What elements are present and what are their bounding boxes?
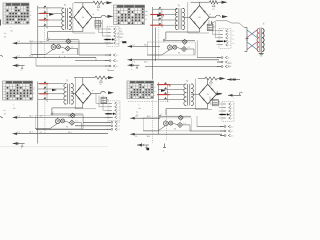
svg-text:a 1: a 1: [228, 34, 230, 36]
bus line L2/SL2 (block A): [13, 41, 113, 44]
wire: D pin feeds: [209, 97, 211, 105]
relay contact matrix K2 (block B): [114, 5, 145, 25]
svg-text:b 2: b 2: [118, 129, 120, 131]
svg-text:a 1: a 1: [117, 107, 119, 109]
wire: B sheet arrow y79.5: [227, 79, 240, 81]
wire: vertical feed A x37.8: [37, 29, 39, 58]
connector X1 pins 1-5 (block A): [105, 27, 120, 47]
connector X3 pins 1-5 (block C): [106, 101, 121, 121]
svg-text:Kz: Kz: [139, 108, 141, 110]
resistor R2 with arrow (block B): [191, 1, 228, 11]
svg-text:c1: c1: [146, 19, 148, 21]
svg-text:a 1: a 1: [117, 117, 119, 119]
relay contact matrix K1 (block A): [3, 3, 29, 24]
wire: C dashed vertical: [44, 84, 46, 134]
module box left edge (block D): [195, 79, 197, 110]
wire: bridge D top corner up: [207, 79, 209, 85]
wire: bridge D output hop arrow: [216, 93, 222, 94]
svg-text:b: b: [64, 56, 65, 58]
svg-text:b: b: [155, 91, 156, 93]
svg-text:b: b: [59, 56, 60, 58]
svg-text:uv: uv: [117, 44, 119, 46]
wire: bridge B top corner up: [199, 2, 201, 5]
svg-text:a 1: a 1: [117, 114, 119, 116]
wire: left edge tick A bus2: [0, 55, 3, 57]
wire: C lower pin line 2: [75, 125, 108, 127]
faint bottom line (block C): [0, 146, 108, 148]
bus line L2/SL2 (block D): [130, 116, 160, 119]
wire: A pin feed horizontals: [95, 28, 108, 30]
svg-text:b: b: [30, 15, 31, 17]
svg-text:a 1: a 1: [228, 31, 230, 33]
wire: A bottom corner to lamp feed: [48, 31, 83, 33]
signal lamps L5/L6 (block C): [35, 112, 83, 129]
module box bottom edge (block B): [188, 32, 209, 34]
svg-text:a 1: a 1: [231, 114, 233, 116]
signal lamps L3/L4 (block B): [147, 38, 195, 55]
connector X2 pins 1-5 (block B): [217, 28, 232, 48]
wire: left edge tick A: [0, 20, 1, 26]
svg-text:Tr: Tr: [186, 80, 188, 83]
svg-text:a 1: a 1: [117, 110, 119, 112]
svg-text:u: u: [131, 69, 132, 71]
wire: D dashed vertical 2: [165, 110, 167, 140]
module box bottom edge (block D): [196, 108, 213, 110]
wire: D lower pin line 1: [196, 116, 198, 127]
signal switch S2 (block B): [150, 7, 177, 28]
connector X3 pins 6-8 (block C): [107, 121, 120, 131]
bus line L1/SL1 (block D): [130, 133, 222, 138]
svg-text:sh: sh: [33, 87, 35, 89]
svg-text:u: u: [146, 11, 147, 13]
resistor R4 with arrow (block D): [198, 77, 226, 87]
svg-text:b1: b1: [146, 15, 148, 17]
battery stub (block A): [13, 64, 25, 69]
svg-text:Tr: Tr: [178, 4, 180, 7]
svg-text:a 1: a 1: [231, 107, 233, 109]
svg-text:b 2: b 2: [116, 55, 118, 57]
bracket under A lower pins: [108, 70, 114, 72]
transformer T4 (block D): [184, 80, 194, 106]
aux transformer ground: [259, 53, 264, 57]
transformer T3 (block C): [64, 80, 74, 105]
svg-text:a 1: a 1: [231, 104, 233, 106]
signal lamps L7/L8 (block D): [143, 114, 191, 131]
signal switch S1 (block A): [38, 5, 63, 28]
wire: bridge A output hop arrow: [92, 15, 106, 17]
svg-text:u: u: [21, 148, 22, 150]
battery symbol on aux line: [246, 37, 249, 39]
red wire vertical tick (block D): [169, 85, 171, 87]
bus line L2/SL2 (block B): [128, 44, 161, 47]
svg-text:u: u: [163, 151, 164, 153]
wire: bridge C top corner up: [82, 78, 84, 84]
svg-text:a 1: a 1: [228, 41, 230, 43]
svg-text:Lz: Lz: [136, 112, 138, 114]
wire: dashed vertical A: [44, 8, 46, 58]
wire: A lower pin line 1: [78, 40, 80, 55]
svg-text:Lz: Lz: [4, 110, 6, 112]
svg-text:b 2: b 2: [118, 122, 120, 124]
wire: C lower pin line 3: [36, 128, 108, 130]
module box left edge (block B): [187, 2, 189, 33]
signal switch S3 (block C): [38, 81, 64, 101]
transformer T2 (block B): [175, 4, 185, 29]
resistor R1 with arrow (block A): [74, 1, 113, 11]
aux transformer crossed wires (teal): [247, 30, 257, 50]
bridge rectifier GL3 (block C): [75, 84, 91, 103]
svg-text:a: a: [155, 87, 156, 89]
svg-text:Bl 2: Bl 2: [228, 66, 231, 68]
svg-text:2: 2: [233, 35, 234, 37]
bus line L2/SL2 (block C): [13, 115, 113, 118]
svg-text:u: u: [21, 70, 22, 72]
relay contact matrix K3 (block C): [3, 81, 33, 100]
svg-text:a 1: a 1: [228, 38, 230, 40]
wire: B pin feeds: [208, 20, 210, 31]
wire: D sheet arrow y95: [228, 94, 241, 96]
svg-text:a: a: [30, 11, 31, 13]
wire: bridge C output hop arrow: [91, 91, 105, 93]
wire: left edge tick C: [0, 116, 3, 118]
svg-text:b 2: b 2: [228, 57, 230, 59]
wire: T4 secondary to bridge D: [191, 93, 199, 95]
battery stub (block C): [13, 142, 25, 147]
bus line L1/SL1 (block A): [13, 56, 96, 59]
resistor box W4 (block D): [213, 99, 221, 105]
bus line L1/SL1 (block B): [128, 59, 220, 64]
dark mark bottom center: [147, 148, 150, 150]
wire: route from block B to aux transformer: [212, 21, 245, 28]
wire: D dashed vertical: [152, 100, 154, 143]
bridge rectifier GL2 (block B): [190, 6, 210, 29]
svg-text:4: 4: [233, 43, 234, 45]
svg-text:b 2: b 2: [116, 60, 118, 62]
wire: D lower pin line 2: [190, 130, 221, 132]
connector X2 pins 6-8 (block B): [217, 56, 230, 68]
wire: C vertical feed x37.8: [37, 102, 39, 144]
wire: C pin feeds: [95, 94, 97, 104]
svg-text:b 2: b 2: [116, 66, 118, 68]
module box left edge (block C): [74, 78, 76, 109]
svg-text:4: 4: [121, 41, 122, 43]
ground symbol right of D stub: [164, 144, 166, 148]
svg-text:b 2: b 2: [231, 135, 233, 137]
resistor box W2 (block B): [207, 24, 215, 30]
svg-text:a 1: a 1: [228, 45, 230, 47]
svg-text:Kz: Kz: [13, 108, 15, 110]
wire: C lower pin line 1: [82, 114, 84, 122]
svg-text:v: v: [233, 98, 234, 100]
svg-text:a 1: a 1: [231, 111, 233, 113]
battery stub (block D): [137, 143, 149, 148]
signal lamps L1/L2 (block A): [31, 38, 79, 55]
dark label blob right of X1: [122, 41, 126, 43]
svg-text:b: b: [33, 93, 34, 95]
bus line L1/SL1 (block C): [13, 132, 108, 135]
aux transformer Tb left terminal line: [244, 28, 248, 52]
resistor R3 with arrow (block C): [74, 76, 114, 86]
svg-text:a 1: a 1: [116, 29, 118, 31]
wire: A lower pin line 2: [95, 58, 97, 61]
svg-text:Tr: Tr: [64, 4, 66, 7]
wire: B vertical feed x155.3: [154, 27, 156, 61]
module box bottom edge (block C): [75, 108, 96, 110]
svg-text:b 2: b 2: [118, 126, 120, 128]
svg-text:b 2: b 2: [231, 131, 233, 133]
wire: D vertical feed x158.4: [157, 102, 159, 134]
resistor box W3 (block C): [101, 97, 109, 103]
svg-text:3: 3: [233, 39, 234, 41]
wire: B lower pin line 1: [196, 40, 198, 57]
wire: A lower pin line 3: [36, 65, 106, 67]
aux transformer Tb windings: [257, 28, 264, 53]
svg-text:a 1: a 1: [231, 118, 233, 120]
signal switch S4 (block D): [157, 82, 184, 102]
svg-text:1 Lz 12: 1 Lz 12: [117, 34, 124, 36]
svg-text:a 1: a 1: [116, 39, 118, 41]
wire: T2 secondary to bridge B: [182, 16, 189, 18]
relay contact matrix K4 (block D): [127, 81, 154, 99]
module box bottom edge (block A): [73, 32, 95, 34]
module box left edge (block A): [72, 3, 74, 33]
connector X1 pins 6-8 (block A): [105, 54, 118, 68]
red wire vertical tick (block B): [162, 15, 164, 17]
transformer T1 (block A): [62, 4, 72, 29]
wire: B dashed vertical: [158, 9, 160, 59]
svg-text:Kz: Kz: [11, 31, 13, 33]
wire: B lower pin line 3: [145, 66, 218, 68]
wire: A pin feeds vertical: [94, 17, 96, 29]
resistor box W1 (block A): [95, 21, 103, 27]
svg-text:Tr: Tr: [66, 80, 68, 83]
svg-text:a 1: a 1: [117, 103, 119, 105]
wire: bridge C bottom corner down: [82, 103, 84, 108]
svg-text:2 Fz 1: 2 Fz 1: [117, 37, 123, 39]
wire: T1 secondary to bridge A: [69, 16, 74, 18]
aux transformer crossed wires (purple): [247, 30, 257, 50]
connector X4 pins 1-5 (block D): [220, 102, 235, 122]
connector X4 pins 6-8 (block D): [220, 125, 233, 137]
battery stub (block B): [128, 64, 140, 69]
bridge rectifier GL1 (block A): [74, 6, 92, 28]
wire: B vertical feed x152.7: [152, 27, 154, 79]
wire: bridge A bottom corner down: [82, 28, 84, 31]
bridge rectifier GL4 (block D): [199, 84, 216, 104]
svg-text:1: 1: [233, 31, 234, 33]
svg-text:b 2: b 2: [231, 126, 233, 128]
svg-text:Lz: Lz: [4, 33, 6, 35]
wire: bridge A top corner up: [82, 3, 84, 7]
wire: bridge B bottom corner down: [199, 29, 201, 32]
wire: bridge D bottom corner down: [207, 104, 209, 109]
dashed separator above D legend: [128, 101, 168, 103]
wire: bridge B output hop arrow: [209, 15, 220, 17]
wire: T3 secondary to bridge C: [71, 93, 75, 95]
